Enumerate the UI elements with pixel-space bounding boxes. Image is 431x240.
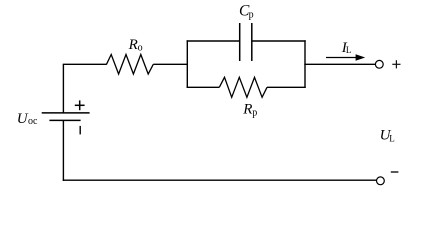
- svg-text:oc: oc: [28, 116, 38, 127]
- current arrow I_L: [326, 54, 365, 61]
- resistor R_o: [107, 55, 154, 75]
- resistor R_p: [219, 77, 267, 97]
- battery minus mark: [79, 126, 81, 134]
- plus sign output: [392, 60, 400, 68]
- wire battery top vertical: [62, 64, 64, 113]
- wire box bottom-left lead: [187, 86, 220, 88]
- wire box bottom-right lead: [267, 86, 306, 88]
- wire box right edge: [304, 40, 306, 88]
- wire box left edge: [186, 40, 188, 88]
- svg-text:L: L: [389, 133, 395, 143]
- svg-text:R: R: [242, 102, 252, 118]
- svg-text:U: U: [17, 111, 29, 127]
- svg-text:R: R: [128, 37, 138, 53]
- svg-text:p: p: [252, 107, 257, 118]
- wire battery bottom vertical: [62, 120, 64, 180]
- wire box top-left lead: [187, 40, 240, 42]
- wire output to terminal: [304, 63, 375, 65]
- battery U_oc short plate: [49, 119, 80, 121]
- svg-text:p: p: [249, 9, 254, 20]
- minus sign output: [391, 171, 399, 173]
- wire R_o to box: [153, 63, 188, 65]
- svg-text:L: L: [346, 45, 352, 55]
- svg-text:o: o: [138, 43, 143, 54]
- capacitor C_p: [240, 23, 252, 61]
- battery plus sign: [75, 100, 85, 110]
- wire bottom horizontal: [63, 179, 377, 181]
- battery U_oc long plate: [42, 112, 90, 114]
- node terminal minus (bottom right circle): [377, 177, 385, 185]
- wire box top-right lead: [252, 40, 306, 42]
- node terminal plus (top right circle): [375, 60, 383, 68]
- wire top horizontal to R_o: [63, 63, 107, 65]
